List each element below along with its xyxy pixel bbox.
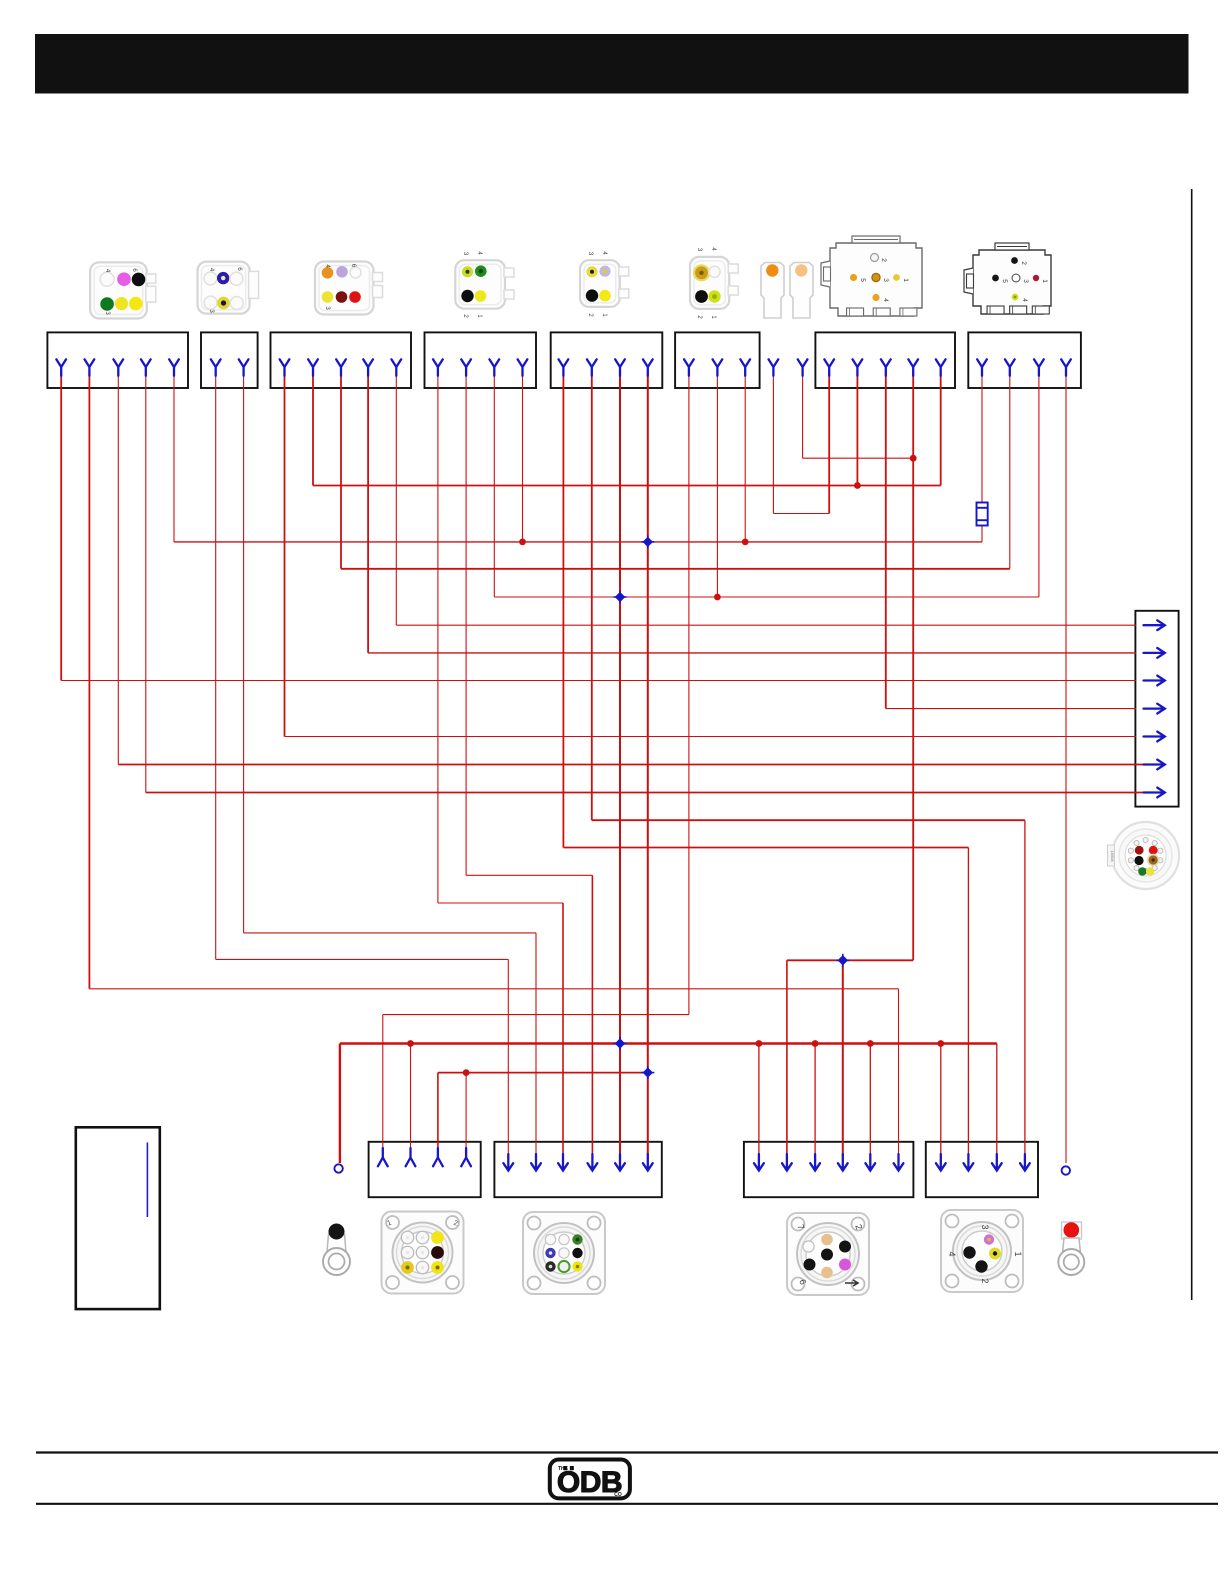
terminal Y x940.7 (936, 359, 946, 376)
wire horizontal y903.0 (438, 902, 563, 904)
wire vertical x940.7 (940, 374, 942, 486)
terminal arrow-right y708.6 (1144, 704, 1165, 714)
page border right (1191, 189, 1193, 1300)
terminal Y x396.3 (391, 359, 401, 376)
terminal Y x284.5 (280, 359, 290, 376)
terminal arrow-down x563.0 (558, 1154, 568, 1171)
terminal Y x494.3 (489, 359, 499, 376)
wire vertical x885.8 (885, 374, 887, 709)
connector block J1 (47, 332, 188, 388)
wire horizontal y764.5 (118, 764, 1150, 766)
terminal Y x745.2 (740, 359, 750, 376)
connector photo C6 (690, 247, 738, 319)
terminal Y-down x382.8 (378, 1148, 388, 1166)
wire horizontal y736.5 (285, 736, 1137, 738)
terminal arrow-down x620.0 (615, 1154, 625, 1171)
terminal Y x243.6 (239, 359, 249, 376)
wire vertical x857.4 (856, 374, 858, 486)
wire horizontal y1072.6 (438, 1072, 648, 1074)
wire drop x466.1 (465, 1073, 467, 1150)
wire vertical x1038.9 (1038, 374, 1040, 597)
connector photo RC2 (523, 1212, 605, 1294)
wire drop x898.5 (898, 989, 900, 1156)
terminal Y x688.9 (684, 359, 694, 376)
terminal arrow-right y764.5 (1144, 760, 1165, 770)
terminal Y x647.8 (643, 359, 653, 376)
wire vertical x773.4 (772, 374, 774, 514)
wire vertical x1066.0 (1065, 374, 1067, 1163)
connector photo C2 (198, 262, 259, 314)
junction node (913.2,458.2) (910, 455, 917, 462)
terminal Y x857.4 (853, 359, 863, 376)
connector block P5 (right) (1135, 611, 1178, 807)
junction node (522.5,541.9) (519, 539, 526, 546)
wire drop x870.3 (869, 1044, 871, 1157)
terminal Y x982.0 (977, 359, 987, 376)
wire vertical x341.0 (340, 374, 342, 569)
wire horizontal y513.5 (773, 513, 829, 515)
terminal Y x118.3 (113, 359, 123, 376)
svg-text:2: 2 (1020, 261, 1027, 265)
terminal Y x563.4 (559, 359, 569, 376)
terminal Y-down x437.9 (433, 1148, 443, 1166)
terminal Y x368.1 (363, 359, 373, 376)
connector photo RC4 (941, 1210, 1023, 1292)
connector block P3 (744, 1142, 914, 1197)
wire drop x437.9 (437, 1073, 439, 1150)
splice node (620.0,597.0) (615, 592, 625, 602)
terminal arrow-down x536.0 (531, 1154, 541, 1171)
connector block J4 (425, 332, 537, 388)
terminal arrow-right y736.5 (1144, 732, 1165, 742)
junction node (940.8,1043.5) (937, 1040, 944, 1047)
terminal Y x591.8 (587, 359, 597, 376)
connector block J7 (815, 332, 955, 388)
wire vertical x174.0 (173, 374, 175, 542)
wire drop x1024.9 (1024, 820, 1026, 1156)
svg-text:5: 5 (859, 278, 866, 282)
wire horizontal y708.6 (886, 708, 1136, 710)
wire vertical x802.6 (802, 374, 804, 458)
connector block P2 (494, 1142, 661, 1197)
terminal arrow-down x815.1 (810, 1154, 820, 1171)
svg-text:1: 1 (1041, 279, 1048, 283)
wire vertical x118.3 (117, 374, 119, 765)
terminal arrow-right y652.9 (1144, 648, 1165, 658)
wire vertical x145.8 (145, 374, 147, 793)
wire horizontal y988.8 (89, 988, 898, 990)
wire drop x536.0 (535, 933, 537, 1156)
junction node (410.5,1043.5) (407, 1040, 414, 1047)
terminal Y-down x466.1 (461, 1148, 471, 1166)
connector photo C5 (580, 251, 629, 317)
svg-text:4: 4 (1021, 298, 1028, 302)
svg-text:3: 3 (882, 278, 889, 282)
wire vertical x620.0 (619, 374, 621, 1155)
wire vertical x829.2 (828, 374, 830, 514)
wire vertical x437.9 (437, 374, 439, 903)
wire vertical x563.4 (562, 374, 564, 848)
module photo M2 (flasher socket) (964, 243, 1051, 314)
terminal Y x341.0 (336, 359, 346, 376)
svg-text:1: 1 (1013, 1251, 1023, 1256)
wire vertical x982 to fuse (981, 374, 983, 503)
ODB logo box (550, 1460, 630, 1499)
terminal Y x1009.8 (1005, 359, 1015, 376)
terminal arrow-right y680.5 (1144, 676, 1165, 686)
terminal Y x89.4 (85, 359, 95, 376)
terminal arrow-down x786.9 (782, 1154, 792, 1171)
svg-text:2: 2 (980, 1278, 990, 1283)
terminal photo T2 (790, 263, 813, 319)
svg-text:CO: CO (614, 1492, 622, 1498)
wire vertical x717.4 (716, 374, 718, 597)
svg-text:3: 3 (1022, 279, 1029, 283)
terminal arrow-right y625.2 (1144, 620, 1165, 630)
terminal arrow-down x758.9 (754, 1154, 764, 1171)
wire drop x968.4 (967, 848, 969, 1157)
junction node (745.2,541.9) (742, 539, 749, 546)
splice node (842.8,960.3) (838, 955, 848, 965)
terminal arrow-down x842.8 (838, 1154, 848, 1171)
connector block P1 (369, 1142, 481, 1197)
footer rule bottom (36, 1503, 1218, 1505)
svg-text:3: 3 (980, 1224, 990, 1229)
connector block J6 (675, 332, 760, 388)
wire drop x592.4 (591, 875, 593, 1156)
svg-text:4: 4 (947, 1251, 957, 1256)
splice node (647.8,541.9) (643, 537, 653, 547)
wire vertical x688.9 (688, 374, 690, 1015)
wire horizontal y1014.6 (383, 1014, 689, 1016)
terminal arrow-down x870.3 (865, 1154, 875, 1171)
wire vertical x494.3 (493, 374, 495, 597)
legend blue wire sample (146, 1142, 148, 1217)
terminal Y x1038.9 (1034, 359, 1044, 376)
fuse F1 (977, 503, 988, 526)
wire horizontal y652.9 (368, 652, 1136, 654)
ring terminal RT1 (ground lug) (323, 1224, 350, 1276)
wire drop x508.3 (507, 959, 509, 1156)
eyelet terminal node right (1062, 1166, 1070, 1174)
terminal Y x145.8 (141, 359, 151, 376)
wire horizontal y875.3 (466, 874, 592, 876)
terminal arrow-down x1024.9 (1020, 1154, 1030, 1171)
junction node (758.9,1043.5) (756, 1040, 763, 1047)
svg-text:2: 2 (880, 258, 887, 262)
connector photo RC3 (787, 1213, 869, 1295)
footer rule top (36, 1451, 1218, 1453)
terminal photo T1 (761, 263, 784, 319)
wire drop x410.5 (410, 1044, 412, 1151)
legend box (76, 1127, 160, 1309)
connector block J5 (551, 332, 663, 388)
wire horizontal y597.0 (494, 596, 1039, 598)
terminal arrow-down x968.4 (964, 1154, 974, 1171)
wire vertical x313.0 (312, 374, 314, 486)
wire horizontal y792.5 (146, 792, 1150, 794)
connector block J2 (201, 332, 258, 388)
terminal Y x885.8 (881, 359, 891, 376)
wire drop x563.0 (562, 903, 564, 1156)
wire vertical x745.2 (744, 374, 746, 542)
connector block J3 (271, 332, 412, 388)
svg-text:5: 5 (1001, 279, 1008, 283)
terminal Y-down x410.5 (406, 1148, 416, 1166)
wire vertical x913.2 (912, 374, 914, 960)
wire vertical x466.1 (465, 374, 467, 875)
wire vertical x61.2 (60, 374, 62, 681)
svg-text:1: 1 (902, 278, 909, 282)
wire vertical x284.5 (284, 374, 286, 737)
junction node (466.1,1072.6) (463, 1069, 470, 1076)
wire drop x382.8 (382, 1015, 384, 1150)
terminal Y x174.0 (169, 359, 179, 376)
connector photo RC1 (382, 1212, 464, 1294)
terminal Y x61.2 (56, 359, 66, 376)
splice node (620.0,1043.5) (615, 1038, 625, 1048)
svg-text:THE: THE (558, 1466, 569, 1472)
connector block J8 (968, 332, 1081, 388)
module photo M1 (flasher socket) (821, 236, 922, 316)
connector photo C3 (315, 262, 383, 315)
terminal arrow-down x898.5 (894, 1154, 904, 1171)
wire drop x842.8 (842, 960, 844, 1156)
ring terminal RT2 (battery lug) (1058, 1222, 1084, 1275)
wire drop x940.8 (940, 1044, 942, 1157)
wire vertical x243.6 (243, 374, 245, 933)
junction node (717.4,597.0) (714, 594, 721, 601)
terminal Y x437.9 (433, 359, 443, 376)
wire vertical x89.4 (88, 374, 90, 989)
connector photo C1 (90, 262, 156, 318)
eyelet terminal node left (334, 1164, 342, 1172)
junction node (815.1,1043.5) (812, 1040, 819, 1047)
terminal Y x717.4 (713, 359, 723, 376)
wire horizontal y820.2 (592, 819, 1025, 821)
wire horizontal y541.9 (174, 541, 982, 543)
wire horizontal y680.5 (61, 680, 1136, 682)
wire drop x815.1 (814, 1044, 816, 1157)
wire horizontal y847.5 (563, 847, 968, 849)
terminal Y x313.0 (308, 359, 318, 376)
connector photo RCR (round) (1108, 822, 1180, 889)
wire drop x786.9 (786, 960, 788, 1156)
junction node (857.4,485.5) (854, 482, 861, 489)
terminal arrow-down x996.8 (992, 1154, 1002, 1171)
terminal Y x829.2 (824, 359, 834, 376)
wire horizontal y485.5 (313, 485, 941, 487)
wire vertical x396.3 (395, 374, 397, 625)
wire vertical x591.8 (591, 374, 593, 820)
wire drop x996.8 (996, 1044, 998, 1157)
terminal Y x215.7 (211, 359, 221, 376)
terminal Y x1066.0 (1061, 359, 1071, 376)
terminal arrow-down x508.3 (503, 1154, 513, 1171)
wire vertical x522.5 (522, 374, 524, 542)
wire vertical x647.8 (647, 374, 649, 1155)
terminal arrow-down x647.8 (643, 1154, 653, 1171)
wire drop x758.9 (758, 1044, 760, 1157)
terminal Y x466.1 (461, 359, 471, 376)
svg-text:4: 4 (882, 298, 889, 302)
svg-text:16508: 16508 (1110, 850, 1115, 862)
terminal Y x802.6 (798, 359, 808, 376)
terminal arrow-down x592.4 (588, 1154, 598, 1171)
wire vertical x368.1 (367, 374, 369, 653)
wire horizontal y568.8 (341, 568, 1010, 570)
wire horizontal y1043.5 (340, 1042, 997, 1044)
wire vertical x215.7 (215, 374, 217, 959)
wire vertical x982 below fuse (981, 526, 983, 542)
terminal Y x620.0 (615, 359, 625, 376)
title banner (35, 34, 1189, 94)
terminal arrow-down x940.8 (936, 1154, 946, 1171)
wire horizontal y458.2 (803, 457, 914, 459)
connector photo C4 (455, 251, 514, 318)
terminal Y x773.4 (769, 359, 779, 376)
wire horizontal y959.4 (216, 958, 509, 960)
wire horizontal y960.3 (787, 959, 913, 961)
terminal arrow-right y792.5 (1144, 788, 1165, 798)
splice node (647.8,1072.6) (643, 1067, 653, 1077)
terminal Y x913.2 (908, 359, 918, 376)
wire horizontal y932.9 (244, 932, 536, 934)
wire drop x339.9 (339, 1044, 341, 1164)
wire vertical x1009.8 (1009, 374, 1011, 569)
connector block P4 (926, 1142, 1038, 1197)
wire horizontal y625.2 (396, 624, 1136, 626)
terminal Y x522.5 (518, 359, 528, 376)
junction node (870.3,1043.5) (867, 1040, 874, 1047)
